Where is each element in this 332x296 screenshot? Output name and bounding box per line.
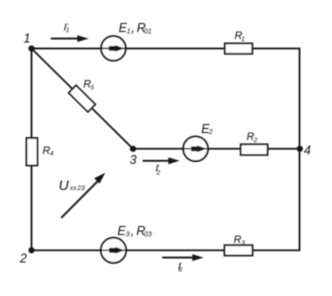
svg-text:4: 4 — [304, 143, 311, 157]
svg-text:3: 3 — [130, 153, 137, 167]
svg-text:1: 1 — [24, 32, 31, 46]
svg-text:2: 2 — [19, 251, 27, 265]
